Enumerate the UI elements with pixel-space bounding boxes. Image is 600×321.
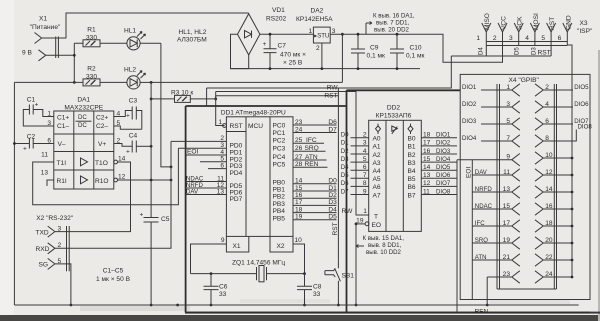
svg-text:T1O: T1O — [95, 160, 108, 167]
svg-text:MAX232CPE: MAX232CPE — [64, 105, 103, 112]
svg-text:D3: D3 — [531, 47, 538, 55]
svg-text:13: 13 — [503, 186, 511, 193]
svg-text:C2: C2 — [27, 133, 36, 140]
node 9V junctions — [73, 54, 76, 57]
svg-text:MISO: MISO — [484, 13, 491, 30]
IC DD1 ATmega48-20PU — [221, 110, 293, 253]
svg-text:C4: C4 — [129, 133, 138, 140]
svg-text:15: 15 — [503, 203, 511, 210]
svg-text:К выв. 15 DA1,: К выв. 15 DA1, — [363, 235, 405, 242]
svg-text:DIO5: DIO5 — [574, 84, 589, 91]
svg-text:RW: RW — [327, 85, 339, 92]
DD2 right stub DIO6 pin 13 — [421, 177, 457, 179]
svg-text:14: 14 — [295, 178, 303, 185]
svg-text:C2+: C2+ — [96, 115, 108, 122]
gnd rail top — [231, 68, 421, 70]
svg-text:C6: C6 — [219, 284, 228, 291]
svg-text:R1I: R1I — [57, 178, 67, 185]
capacitor C3 — [114, 98, 142, 130]
svg-text:9 В: 9 В — [22, 50, 32, 57]
svg-text:D4: D4 — [341, 164, 349, 171]
svg-text:PB5: PB5 — [273, 215, 286, 222]
wire X1 pin1 to top rail — [42, 13, 249, 38]
X4 pin 6 DIO7 — [535, 118, 589, 130]
svg-text:DIO4: DIO4 — [436, 156, 451, 163]
DD2 left stub D0 pin 2 — [351, 137, 369, 139]
svg-text:ATN: ATN — [305, 154, 318, 161]
svg-text:DIO1: DIO1 — [436, 132, 451, 139]
svg-text:D6: D6 — [341, 180, 349, 187]
X4 pin 24 — [535, 271, 573, 283]
svg-text:К выв. 16 DA1,: К выв. 16 DA1, — [373, 13, 415, 20]
wire T1O to X2 TXD — [55, 162, 131, 232]
svg-text:АЛ307БМ: АЛ307БМ — [177, 37, 207, 44]
svg-text:DIO8: DIO8 — [578, 124, 593, 131]
svg-text:X4 "GPIB": X4 "GPIB" — [509, 77, 540, 84]
svg-text:B4: B4 — [408, 168, 416, 175]
svg-text:1: 1 — [218, 119, 222, 126]
svg-text:+: + — [126, 149, 130, 156]
wire +5V line HL2 to DA2 rail riser — [151, 34, 342, 82]
svg-text:5: 5 — [363, 156, 367, 163]
svg-text:3: 3 — [58, 226, 62, 233]
svg-text:A4: A4 — [373, 168, 381, 175]
svg-text:C1–C5: C1–C5 — [103, 268, 124, 275]
wire RST link down to channel — [207, 56, 452, 106]
svg-text:12: 12 — [423, 180, 431, 187]
svg-text:HL1, HL2: HL1, HL2 — [179, 29, 207, 36]
svg-text:D4: D4 — [478, 47, 485, 55]
svg-text:23: 23 — [503, 271, 511, 278]
svg-text:25: 25 — [295, 137, 303, 144]
svg-text:DIO3: DIO3 — [436, 148, 451, 155]
svg-text:B7: B7 — [408, 192, 416, 199]
svg-text:D7: D7 — [341, 188, 349, 195]
svg-text:18: 18 — [545, 220, 553, 227]
svg-text:DIO2: DIO2 — [436, 140, 451, 147]
+5V rail from DA2 pin3 — [330, 34, 502, 62]
svg-text:DD2: DD2 — [387, 105, 401, 112]
wire ISP bus line B — [486, 45, 567, 47]
svg-text:+: + — [263, 41, 267, 48]
X4 pin 20 — [535, 237, 573, 249]
svg-text:R1O: R1O — [95, 178, 109, 185]
X4 pin 14 — [535, 186, 573, 198]
svg-text:C5: C5 — [161, 216, 170, 223]
svg-text:B3: B3 — [408, 160, 416, 167]
DD2 right stub DIO3 pin 16 — [421, 153, 457, 155]
svg-text:× 25 В: × 25 В — [283, 60, 303, 67]
svg-text:4: 4 — [545, 101, 549, 108]
svg-text:33: 33 — [219, 291, 227, 298]
MCU right pin 26 SRQ — [293, 150, 326, 152]
svg-text:DC: DC — [78, 122, 87, 129]
svg-text:470 мк ×: 470 мк × — [280, 52, 306, 59]
svg-text:выв. 8 DD1,: выв. 8 DD1, — [368, 242, 402, 249]
wire RST to ISP — [451, 55, 551, 57]
svg-text:15: 15 — [295, 185, 303, 192]
svg-text:D1: D1 — [328, 185, 337, 192]
svg-text:C10: C10 — [410, 45, 422, 52]
svg-text:10: 10 — [295, 237, 303, 244]
svg-text:EOI: EOI — [187, 149, 199, 156]
svg-text:PC2: PC2 — [273, 137, 286, 144]
capacitor C8 33 — [297, 274, 322, 307]
svg-text:PC4: PC4 — [273, 154, 286, 161]
svg-text:8: 8 — [363, 180, 367, 187]
bridge VD1 RS202 — [238, 7, 287, 55]
svg-text:PB3: PB3 — [273, 201, 286, 208]
DD2 pin 19 EO — [356, 223, 365, 225]
DD2 left stub D5 pin 7 — [351, 177, 369, 179]
svg-text:X3: X3 — [580, 20, 588, 27]
svg-text:24: 24 — [545, 271, 553, 278]
svg-text:R2: R2 — [87, 66, 96, 73]
wire DD2 EO ground vertical — [355, 224, 357, 305]
svg-text:PC5: PC5 — [273, 161, 286, 168]
MCU left pin 11 PD5 NDAC — [186, 181, 226, 183]
svg-text:PB2: PB2 — [273, 194, 286, 201]
svg-text:D6: D6 — [328, 119, 337, 126]
svg-text:330: 330 — [86, 74, 97, 81]
X4 pin 2 DIO5 — [535, 84, 589, 96]
DD2 left stub D4 pin 6 — [351, 169, 369, 171]
wire RST vertical to SB1 — [337, 88, 339, 260]
wire HL1 to R1O node — [161, 43, 171, 167]
svg-text:D3: D3 — [341, 156, 349, 163]
svg-text:T: T — [374, 213, 378, 220]
MCU right pin 16 D2 — [293, 197, 337, 199]
X4 pin 3 DIO2 — [462, 101, 520, 113]
+5V annotation — [366, 13, 415, 35]
wire T1I staircase to MCU PD1 — [33, 148, 179, 205]
svg-text:DIO4: DIO4 — [462, 135, 477, 142]
svg-text:DA1: DA1 — [77, 97, 90, 104]
svg-text:SG: SG — [39, 262, 49, 269]
svg-text:DIO5: DIO5 — [436, 164, 451, 171]
svg-text:MOSI: MOSI — [533, 13, 540, 30]
svg-text:КР1533АП6: КР1533АП6 — [376, 112, 412, 119]
svg-text:1: 1 — [363, 208, 367, 215]
svg-text:7: 7 — [363, 172, 367, 179]
svg-text:VCC: VCC — [501, 16, 508, 30]
wire R1O to MCU PD0 — [118, 179, 172, 181]
svg-text:DIO7: DIO7 — [436, 180, 451, 187]
svg-text:DA2: DA2 — [311, 8, 324, 15]
svg-text:DIO8: DIO8 — [436, 188, 451, 195]
svg-text:B2: B2 — [408, 152, 416, 159]
wire RST branch to MCU pin1 — [216, 96, 225, 126]
MCU right pin 25 IFC — [293, 142, 324, 144]
svg-text:24: 24 — [295, 126, 303, 133]
svg-text:DIO6: DIO6 — [574, 101, 589, 108]
svg-text:MCU: MCU — [248, 123, 263, 130]
svg-text:27: 27 — [295, 154, 303, 161]
DD2 right stub DIO7 pin 12 — [421, 185, 457, 187]
MCU right pin 14 D0 — [293, 183, 337, 185]
svg-text:+: + — [140, 212, 144, 219]
wire REN pin 23 to ground rail — [486, 277, 488, 305]
svg-text:DIO2: DIO2 — [462, 101, 477, 108]
svg-text:14: 14 — [545, 186, 553, 193]
svg-text:+: + — [126, 113, 130, 120]
svg-text:20: 20 — [545, 237, 553, 244]
wire RW line — [216, 92, 356, 99]
svg-text:D0: D0 — [328, 178, 337, 185]
svg-text:13: 13 — [41, 170, 49, 177]
svg-text:A0: A0 — [373, 136, 381, 143]
svg-text:X2 "RS-232": X2 "RS-232" — [36, 215, 74, 222]
MCU left pin 3 PD1 — [178, 147, 226, 149]
X4 pin 15 NDAC — [472, 203, 520, 215]
svg-text:19: 19 — [295, 214, 303, 221]
MCU right pin 28 REN — [293, 166, 328, 168]
svg-text:28: 28 — [295, 161, 303, 168]
svg-text:23: 23 — [295, 119, 303, 126]
svg-text:HL2: HL2 — [124, 67, 136, 74]
svg-text:16: 16 — [423, 148, 431, 155]
wire R1I stub — [47, 180, 54, 186]
MCU right pin 19 D5 — [293, 219, 337, 221]
MCU pin 10 X2 — [293, 244, 305, 274]
svg-text:DIO3: DIO3 — [462, 118, 477, 125]
MCU left pin 13 PD7 DAV — [186, 194, 226, 196]
ground rail — [14, 304, 578, 306]
X3 pin 1 MISO — [482, 23, 491, 56]
svg-text:PC1: PC1 — [273, 130, 286, 137]
svg-text:9: 9 — [506, 154, 510, 161]
svg-text:A3: A3 — [373, 160, 381, 167]
MCU right pin 17 D3 — [293, 204, 337, 206]
svg-text:DIO1: DIO1 — [462, 84, 477, 91]
MCU right pin 24 D7 — [293, 132, 337, 134]
svg-text:B1: B1 — [408, 144, 416, 151]
svg-text:REN: REN — [475, 308, 489, 315]
svg-text:18: 18 — [423, 132, 431, 139]
svg-text:D5: D5 — [341, 172, 349, 179]
MCU right pin 18 D4 — [293, 212, 337, 214]
DD2 left stub D1 pin 3 — [351, 145, 369, 147]
svg-text:D1: D1 — [341, 140, 349, 147]
svg-text:2: 2 — [58, 242, 62, 249]
svg-text:D5: D5 — [514, 47, 521, 55]
svg-text:DIO6: DIO6 — [436, 172, 451, 179]
wire +5 vertical branch R3/C4/C5 — [150, 82, 152, 305]
LED HL2 — [124, 67, 151, 89]
svg-text:15: 15 — [423, 156, 431, 163]
svg-text:13: 13 — [423, 172, 431, 179]
svg-text:КР142ЕН5А: КР142ЕН5А — [296, 16, 333, 23]
svg-text:17: 17 — [295, 199, 303, 206]
svg-text:1: 1 — [476, 35, 480, 42]
svg-text:DD1 ATmega48-20PU: DD1 ATmega48-20PU — [221, 110, 286, 117]
svg-text:17: 17 — [503, 220, 511, 227]
svg-text:RS202: RS202 — [266, 16, 286, 23]
svg-text:"ISP": "ISP" — [577, 28, 593, 35]
svg-text:RST: RST — [324, 93, 337, 100]
svg-text:B5: B5 — [408, 176, 416, 183]
svg-text:D2: D2 — [328, 192, 337, 199]
svg-text:0,1 мк: 0,1 мк — [406, 53, 425, 60]
svg-text:11: 11 — [41, 152, 48, 159]
DD2 left stub D7 pin 9 — [351, 194, 369, 196]
connector X1 "Питание" — [30, 16, 61, 61]
X4 pin 18 — [535, 220, 573, 232]
svg-text:C2–: C2– — [96, 123, 108, 130]
svg-text:PC3: PC3 — [273, 145, 286, 152]
wire bridge left to gnd rail — [231, 34, 249, 68]
svg-text:выв. 20 DD2: выв. 20 DD2 — [374, 27, 410, 34]
svg-text:"Питание": "Питание" — [30, 24, 61, 31]
X4 pin 19 SRQ wire from MCU — [472, 237, 520, 249]
capacitor C6 33 — [204, 274, 228, 307]
MCU left pin 4 PD2 EOI — [186, 154, 227, 156]
svg-text:16: 16 — [295, 192, 303, 199]
MCU left pin 5 PD3 — [200, 161, 226, 163]
svg-text:X1: X1 — [39, 16, 47, 23]
X4 pin 5 DIO3 — [462, 118, 520, 130]
svg-text:18: 18 — [295, 206, 303, 213]
svg-text:9: 9 — [221, 237, 225, 244]
svg-text:PB4: PB4 — [273, 208, 286, 215]
svg-text:2: 2 — [316, 45, 320, 52]
svg-text:D3: D3 — [328, 199, 337, 206]
svg-text:D5: D5 — [328, 214, 337, 221]
MCU left pin 12 PD6 NRFD — [186, 187, 226, 189]
svg-text:SCK: SCK — [517, 16, 524, 30]
ground annotation — [356, 235, 404, 256]
LED HL1 — [124, 28, 161, 50]
svg-text:V–: V– — [58, 141, 66, 148]
svg-text:TXD: TXD — [36, 229, 49, 236]
svg-text:EO: EO — [372, 222, 382, 229]
svg-text:X2: X2 — [277, 243, 285, 250]
X3 pin 5 RST — [547, 23, 556, 56]
DD2 left stub D2 pin 4 — [351, 153, 369, 155]
heavy frame around DD1 section — [186, 90, 590, 312]
capacitor C10 0.1mk — [390, 33, 425, 70]
wire +5V branch down left column — [13, 82, 15, 305]
svg-text:B0: B0 — [408, 136, 416, 143]
X4 pin 23 REN — [487, 271, 520, 283]
svg-text:21: 21 — [503, 254, 511, 261]
DD2 right stub DIO2 pin 17 — [421, 145, 457, 147]
MCU right pin 23 D6 — [293, 124, 337, 126]
svg-text:14: 14 — [423, 164, 431, 171]
IC DD2 KR1533AP6 — [365, 105, 421, 232]
resistor R2 330 — [14, 66, 127, 86]
svg-text:4: 4 — [363, 148, 367, 155]
svg-text:PC0: PC0 — [273, 123, 286, 130]
capacitor C7 470mk — [263, 33, 307, 70]
X4 pin 16 — [535, 203, 573, 215]
wire SG to ground — [55, 264, 71, 305]
svg-text:3: 3 — [506, 101, 510, 108]
svg-text:C9: C9 — [370, 45, 379, 52]
svg-text:8: 8 — [545, 135, 549, 142]
X3 pin 4 MOSI — [530, 23, 539, 46]
svg-text:0,1 мк: 0,1 мк — [367, 53, 386, 60]
bottom scan band — [0, 315, 600, 321]
svg-text:13: 13 — [217, 188, 225, 195]
svg-text:T1I: T1I — [57, 160, 67, 167]
wire EOI vertical to frame bottom — [456, 160, 458, 313]
wire bridge right to DA2 — [260, 33, 314, 35]
svg-text:C7: C7 — [278, 43, 287, 50]
svg-text:3: 3 — [363, 140, 367, 147]
svg-text:19: 19 — [356, 217, 364, 224]
svg-text:33: 33 — [313, 291, 321, 298]
MCU left pin 6 PD4 — [208, 168, 226, 170]
MCU pin 9 X1 — [191, 244, 227, 274]
capacitor C9 0.1mk — [351, 33, 385, 70]
svg-text:SB1: SB1 — [342, 272, 355, 279]
crystal ZQ1 — [191, 260, 305, 282]
svg-text:B6: B6 — [408, 184, 416, 191]
capacitor C2 — [13, 133, 54, 152]
resistor R1 330 — [74, 27, 127, 47]
X4 pin 9 EOI — [457, 154, 520, 166]
svg-text:IFC: IFC — [306, 137, 317, 144]
svg-text:A7: A7 — [373, 192, 381, 199]
svg-text:REN: REN — [305, 161, 319, 168]
capacitor C4 — [114, 133, 153, 156]
svg-text:RST: RST — [332, 222, 339, 235]
DD2 right stub DIO4 pin 15 — [421, 161, 457, 163]
svg-text:SRQ: SRQ — [305, 145, 319, 152]
MCU right pin 15 D1 — [293, 190, 337, 192]
svg-text:RST: RST — [230, 123, 243, 130]
svg-text:C3: C3 — [129, 98, 138, 105]
wire RW vertical to DD2 — [356, 92, 369, 216]
svg-text:7: 7 — [506, 135, 510, 142]
X4 pin 7 DIO4 — [462, 135, 520, 147]
svg-text:V+: V+ — [98, 141, 106, 148]
svg-text:2: 2 — [545, 84, 549, 91]
X4 pin 8 DIO8 jog — [535, 124, 592, 148]
wire X1 pin2 (9V) — [46, 43, 75, 82]
svg-text:RXD: RXD — [36, 246, 50, 253]
X4 pin 1 DIO1 — [462, 84, 520, 96]
svg-text:HL1: HL1 — [124, 28, 136, 35]
wire GPIB inner-left bus — [471, 160, 473, 300]
resistor R3 10k — [151, 90, 216, 103]
svg-text:A2: A2 — [373, 152, 381, 159]
svg-text:PD7: PD7 — [230, 196, 243, 203]
svg-text:PB0: PB0 — [273, 179, 286, 186]
X4 pin 13 NRFD — [472, 186, 520, 198]
svg-text:26: 26 — [295, 145, 303, 152]
svg-text:D2: D2 — [341, 148, 349, 155]
svg-text:6: 6 — [220, 162, 224, 169]
svg-text:VD1: VD1 — [272, 7, 285, 14]
X4 pin 10 — [535, 152, 573, 164]
svg-text:EOI: EOI — [466, 166, 473, 178]
svg-text:C1–: C1– — [57, 123, 69, 130]
X4 pin 22 — [535, 254, 573, 266]
connector X4 "GPIB" — [460, 74, 590, 299]
wire RST from R3 to channel — [216, 95, 339, 97]
svg-text:RW: RW — [342, 208, 354, 215]
svg-text:11: 11 — [503, 169, 510, 176]
svg-text:14: 14 — [118, 156, 126, 163]
DD2 left stub D3 pin 5 — [351, 161, 369, 163]
connector X3 "ISP" — [484, 13, 593, 35]
svg-text:A5: A5 — [373, 176, 381, 183]
svg-text:▸STU: ▸STU — [314, 33, 329, 40]
IC DA1 MAX232CPE — [54, 97, 118, 190]
X3 pin 2 VCC — [498, 23, 507, 46]
